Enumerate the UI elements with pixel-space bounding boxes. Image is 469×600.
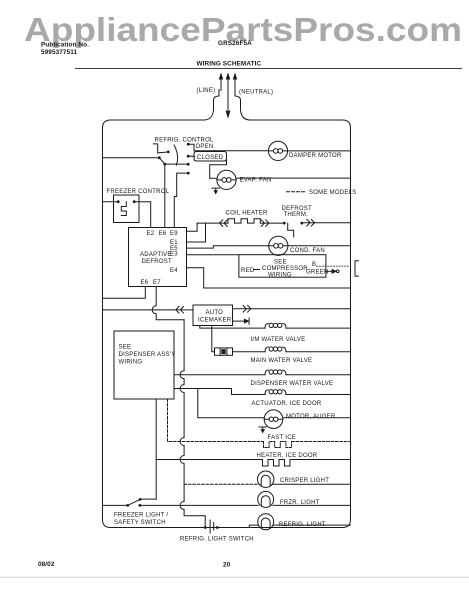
dispenser water valve wire to bus <box>286 374 351 376</box>
external connector bracket <box>355 261 359 276</box>
ground arrow into cabinet <box>226 111 230 117</box>
coil heater left chevrons <box>197 220 227 227</box>
svg-text:AUTO: AUTO <box>206 310 224 316</box>
defrost wire right with chevrons to bus <box>302 219 351 226</box>
refrig light feed from bottom edge <box>249 525 258 527</box>
fast ice feed dashed from dispenser box <box>168 399 264 442</box>
svg-text:COMPRESSOR: COMPRESSOR <box>262 266 308 272</box>
damper motor wire (left) <box>194 150 269 152</box>
auger motor coil <box>264 418 283 420</box>
wire actuator feed to auger motor <box>198 389 265 418</box>
inline connector (fuse block) <box>215 348 233 355</box>
svg-text:E9: E9 <box>170 231 178 237</box>
actuator wire to bus <box>286 394 351 396</box>
coil heater wire left tail <box>187 223 198 231</box>
frzr light filament <box>261 496 270 506</box>
wire lever2 dot to contact3 (closed) <box>165 163 188 165</box>
freezer light switch lever <box>128 499 140 505</box>
svg-text:E4: E4 <box>170 268 178 274</box>
refrig control lower contact 4 <box>187 172 190 175</box>
heater ice door element <box>263 460 291 467</box>
svg-text:Publication No.: Publication No. <box>41 42 89 49</box>
defrost thermostat contact right <box>300 222 303 225</box>
refrig light switch contact right <box>216 526 219 529</box>
svg-text:MAIN WATER VALVE: MAIN WATER VALVE <box>251 358 313 364</box>
heater ice door wire to bus <box>290 459 351 461</box>
auto icemaker box <box>193 305 233 326</box>
svg-text:RED: RED <box>241 268 255 274</box>
wire dispenser box to actuator <box>174 389 265 395</box>
svg-text:SAFETY SWITCH: SAFETY SWITCH <box>114 520 166 526</box>
svg-text:MOTOR, AUGER: MOTOR, AUGER <box>286 414 336 420</box>
refrig control lever dot 1 <box>167 151 170 154</box>
svg-text:GREEN: GREEN <box>306 270 329 276</box>
svg-text:DEFROST: DEFROST <box>142 259 173 265</box>
main water valve wire <box>233 351 266 353</box>
I/M water valve solenoid <box>265 323 286 328</box>
refrig control bracket <box>153 144 157 153</box>
I/M water valve wire to bus <box>286 327 351 329</box>
plug prong (LINE) <box>220 79 222 91</box>
damper motor coil <box>268 150 287 152</box>
cond fan coil <box>269 245 288 247</box>
frzr light lamp <box>258 491 274 507</box>
freezer light switch contact left <box>126 504 129 507</box>
refrig control lever dot 2 <box>163 163 166 166</box>
icemaker connector stub arrow <box>233 318 250 324</box>
frzr light wire to bus <box>273 504 350 506</box>
wire lever2 down to defrost pin E6 <box>164 164 166 227</box>
plug prong middle (ground) <box>227 79 229 110</box>
damper motor wire (right) to bus <box>288 150 351 152</box>
coil heater element R <box>228 219 260 223</box>
freezer light switch line from left bus <box>103 504 128 506</box>
svg-text:WIRING: WIRING <box>268 273 292 279</box>
evap fan motor <box>217 170 236 189</box>
heater ice door feed from dispenser box <box>156 399 262 460</box>
refrig light wire to bus <box>273 524 351 526</box>
svg-text:E6: E6 <box>159 231 167 237</box>
wire CLOSED to evap fan <box>210 159 227 179</box>
refrig control lever 1 <box>158 152 168 153</box>
cabinet outline (main box) <box>103 120 351 528</box>
refrig control OPEN contact <box>187 143 190 146</box>
wire pin E6 bottom to left edge <box>103 287 146 299</box>
some models dashed legend <box>287 191 306 193</box>
svg-text:B: B <box>312 262 316 268</box>
main water valve wire to bus <box>286 351 351 353</box>
icemaker wire right with chevrons to bus <box>233 306 351 313</box>
main bus vertical with hops <box>180 320 205 528</box>
title underline <box>75 68 462 70</box>
svg-text:FREEZER LIGHT /: FREEZER LIGHT / <box>114 513 168 519</box>
dispenser assembly box <box>114 331 174 399</box>
svg-text:E6: E6 <box>141 280 149 286</box>
refrig light switch contact left <box>204 526 207 529</box>
adaptive defrost control box <box>129 228 187 287</box>
wire OPEN contact to damper line <box>188 144 194 151</box>
wire dispenser box to dispenser water valve <box>174 374 265 376</box>
wire loop around CLOSED label <box>188 152 226 162</box>
wire feed from left bus to freezer control <box>103 201 119 203</box>
svg-text:HEATER, ICE DOOR: HEATER, ICE DOOR <box>257 453 318 459</box>
svg-text:(LINE): (LINE) <box>197 88 216 94</box>
svg-text:SOME MODELS: SOME MODELS <box>309 190 356 196</box>
svg-text:ACTUATOR, ICE DOOR: ACTUATOR, ICE DOOR <box>252 401 322 407</box>
svg-text:5995377511: 5995377511 <box>41 49 78 56</box>
svg-text:WIRING: WIRING <box>119 360 143 366</box>
svg-text:E2: E2 <box>147 231 155 237</box>
crisper light lamp <box>258 471 274 487</box>
evap fan coil <box>217 179 236 181</box>
svg-text:ICEMAKER: ICEMAKER <box>198 318 232 324</box>
svg-text:FREEZER CONTROL: FREEZER CONTROL <box>107 189 170 195</box>
damper motor M1 <box>268 141 287 160</box>
wire freezer control to pin E2 <box>134 202 151 228</box>
svg-text:WIRING SCHEMATIC: WIRING SCHEMATIC <box>197 61 262 68</box>
refrig control CLOSED contact <box>187 155 190 158</box>
defrost thermostat contact left <box>283 222 286 225</box>
svg-text:COND. FAN: COND. FAN <box>290 248 325 254</box>
wire contact4 to pin E9 <box>174 173 188 227</box>
freezer light switch lever dot <box>139 498 142 501</box>
svg-text:CLOSED: CLOSED <box>197 155 224 161</box>
evap fan wire (left) <box>210 177 217 179</box>
svg-text:OPEN: OPEN <box>196 144 214 150</box>
svg-text:I/M WATER VALVE: I/M WATER VALVE <box>251 337 306 343</box>
freezer control contact left <box>117 200 120 203</box>
cond fan motor <box>269 236 288 255</box>
svg-text:FAST ICE: FAST ICE <box>268 435 297 441</box>
crisper light filament <box>261 475 270 486</box>
see compressor wiring box <box>239 255 326 278</box>
refrig light filament <box>261 518 270 528</box>
freezer control bellows symbol <box>121 202 126 216</box>
wire icemaker to main water valve <box>212 326 215 352</box>
refrig control common terminal <box>158 156 161 159</box>
refrig light switch bars <box>210 520 214 533</box>
wire pin E1 up to coil heater line <box>187 223 206 242</box>
refrig control throw arc <box>174 145 177 165</box>
fast ice wire to bus dashed <box>292 441 351 443</box>
wire pin E5 to cond fan <box>187 246 269 248</box>
svg-text:THERM.: THERM. <box>284 212 309 218</box>
wire pin E4 to bus (below compressor box) <box>187 268 351 288</box>
auger wire to bus <box>283 417 351 419</box>
wire dispenser box down to safety switch <box>140 460 156 500</box>
svg-text:COIL HEATER: COIL HEATER <box>226 211 269 217</box>
svg-text:REFRIG. CONTROL: REFRIG. CONTROL <box>155 138 214 144</box>
svg-text:DAMPER MOTOR: DAMPER MOTOR <box>289 153 342 159</box>
actuator solenoid <box>265 390 286 395</box>
svg-text:GRS26F5A: GRS26F5A <box>218 40 252 47</box>
svg-text:E7: E7 <box>153 280 161 286</box>
svg-text:(NEUTRAL): (NEUTRAL) <box>239 90 273 96</box>
svg-text:SEE: SEE <box>274 260 287 266</box>
plug neck left flare <box>205 90 219 121</box>
wire icemaker to I/M water valve <box>200 326 265 329</box>
evap fan wire (right) to bus <box>236 177 350 179</box>
svg-text:08/02: 08/02 <box>38 561 55 568</box>
footer rule <box>0 576 469 578</box>
refrig control lever 2 <box>159 158 165 164</box>
auger motor <box>264 410 283 429</box>
freezer control box <box>114 195 140 223</box>
svg-text:CRISPER LIGHT: CRISPER LIGHT <box>280 478 329 484</box>
defrost thermostat step symbol <box>288 223 294 237</box>
svg-text:REFRIG. LIGHT SWITCH: REFRIG. LIGHT SWITCH <box>180 537 254 543</box>
icemaker feed wire with left chevrons <box>103 307 194 314</box>
refrig control lower contact 3 <box>187 163 190 166</box>
wire pin E3 to compressor box <box>187 254 239 256</box>
freezer control contact right <box>133 200 136 203</box>
green connector pin <box>336 270 339 273</box>
cond fan wire right to bus <box>288 245 351 247</box>
evap fan ground <box>212 188 219 191</box>
wire B dotted to bus <box>317 265 350 267</box>
green lead with connector <box>325 270 332 272</box>
svg-text:DISPENSER ASS'Y: DISPENSER ASS'Y <box>119 352 176 358</box>
plug prong (NEUTRAL) <box>234 79 236 91</box>
wire pin E7 down with hop over icemaker feed <box>152 287 184 320</box>
crisper light feed dashed from bus <box>184 483 259 485</box>
freezer light switch contact right <box>139 504 142 507</box>
refrig light lamp <box>258 514 274 530</box>
wire feed from left bus to refrig control <box>103 157 159 159</box>
crisper light wire to bus <box>272 483 350 485</box>
fast ice heater element (dashed) <box>264 442 292 448</box>
dispenser water valve solenoid <box>265 370 286 375</box>
svg-text:ADAPTIVE: ADAPTIVE <box>140 252 172 258</box>
svg-text:DISPENSER WATER VALVE: DISPENSER WATER VALVE <box>251 381 334 387</box>
main water valve solenoid <box>265 347 286 352</box>
freezer switch wire right to frzr light <box>140 504 258 506</box>
auger ground <box>259 427 266 430</box>
svg-text:SEE: SEE <box>119 345 132 351</box>
plug neck right flare <box>235 90 249 121</box>
coil heater right chevrons <box>260 220 284 227</box>
svg-text:20: 20 <box>223 562 231 569</box>
